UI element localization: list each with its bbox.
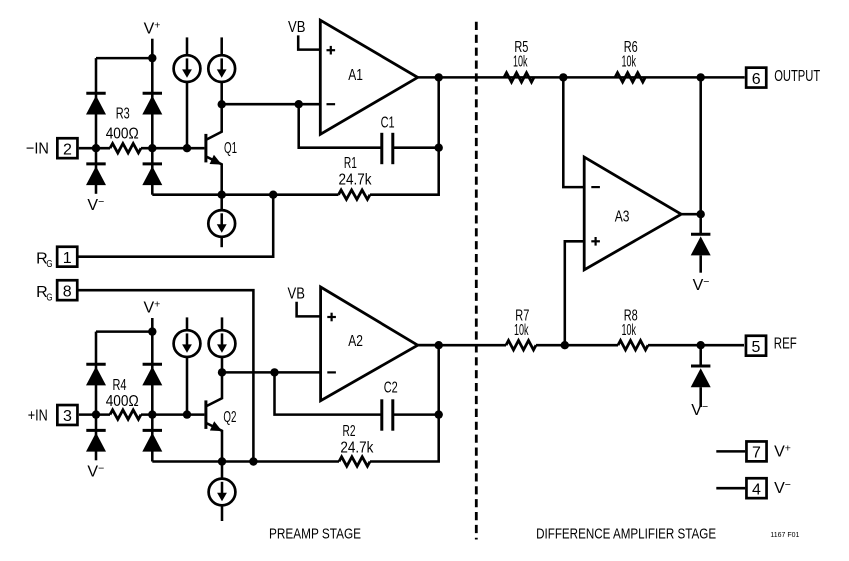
svg-text:C2: C2 — [384, 380, 398, 397]
svg-text:400Ω: 400Ω — [106, 393, 139, 410]
svg-text:−IN: −IN — [26, 141, 49, 158]
svg-text:24.7k: 24.7k — [339, 172, 373, 189]
svg-text:10k: 10k — [513, 54, 528, 71]
svg-text:R1: R1 — [344, 155, 357, 172]
svg-text:A3: A3 — [615, 208, 630, 225]
svg-text:OUTPUT: OUTPUT — [774, 68, 820, 85]
svg-text:10k: 10k — [622, 322, 637, 339]
svg-text:R2: R2 — [343, 423, 356, 440]
svg-text:2: 2 — [63, 141, 72, 158]
svg-text:VB: VB — [288, 19, 305, 36]
svg-text:24.7k: 24.7k — [340, 440, 374, 457]
svg-text:6: 6 — [752, 71, 761, 88]
svg-text:10k: 10k — [514, 322, 529, 339]
svg-text:A1: A1 — [348, 67, 363, 84]
svg-text:7: 7 — [752, 445, 761, 462]
svg-text:4: 4 — [752, 481, 761, 498]
svg-text:5: 5 — [752, 339, 761, 356]
svg-text:VB: VB — [288, 286, 305, 303]
svg-text:DIFFERENCE AMPLIFIER STAGE: DIFFERENCE AMPLIFIER STAGE — [536, 526, 716, 543]
svg-text:1: 1 — [63, 250, 72, 267]
svg-text:3: 3 — [63, 408, 72, 425]
svg-text:Q2: Q2 — [223, 409, 236, 426]
svg-text:10k: 10k — [622, 54, 637, 71]
svg-text:PREAMP STAGE: PREAMP STAGE — [269, 526, 361, 543]
svg-text:G: G — [46, 258, 52, 270]
svg-text:8: 8 — [63, 283, 72, 300]
svg-text:C1: C1 — [381, 115, 395, 132]
svg-text:400Ω: 400Ω — [106, 125, 139, 142]
svg-text:Q1: Q1 — [224, 140, 237, 157]
svg-text:REF: REF — [774, 336, 797, 353]
svg-text:R3: R3 — [116, 105, 130, 122]
svg-text:G: G — [46, 291, 52, 303]
svg-text:R4: R4 — [113, 377, 127, 394]
svg-text:A2: A2 — [348, 333, 363, 350]
svg-text:+IN: +IN — [28, 407, 48, 424]
svg-text:1167 F01: 1167 F01 — [770, 530, 799, 539]
